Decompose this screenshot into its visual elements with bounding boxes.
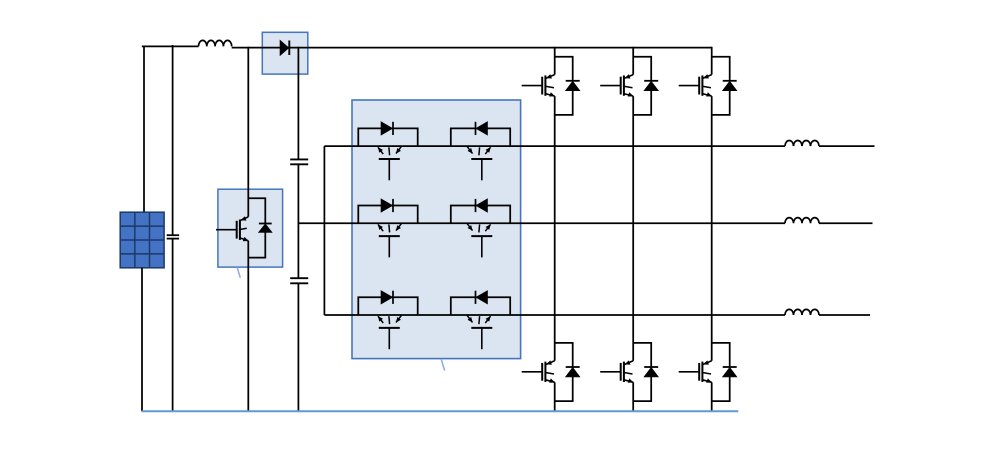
IGBT Q1 (boost switch)	[216, 217, 248, 241]
wire boost switch emitter to bottom bus	[247, 241, 249, 411]
diode D6 (S4 parallel diode)	[451, 199, 510, 223]
diode D9 (S7 anti-parallel)	[555, 57, 580, 115]
IGBT S4 (matrix switch)	[467, 224, 492, 258]
wire PV negative (panel down to bottom bus)	[141, 268, 143, 412]
IGBT S1 (matrix switch)	[378, 147, 401, 181]
inductor L3 (phase B filter)	[785, 218, 819, 224]
diode D12 (S10 anti-parallel)	[633, 343, 658, 401]
wire phase A line	[324, 145, 874, 147]
diode D3 (S1 parallel diode)	[358, 122, 417, 146]
wire DC link bottom	[297, 283, 299, 411]
solar PV panel	[120, 212, 164, 268]
diode D11 (S9 anti-parallel)	[633, 57, 658, 115]
callout tail of boost switch box	[237, 267, 240, 277]
diode D4 (S2 parallel diode)	[451, 122, 510, 146]
wire inverter leg 1	[554, 47, 556, 412]
diode D5 (S3 parallel diode)	[358, 199, 417, 223]
capacitor C3 (DC link lower)	[290, 278, 308, 283]
IGBT S5 (matrix switch)	[378, 316, 401, 350]
inductor L4 (phase C filter)	[785, 309, 819, 315]
diode D8 (S6 parallel diode)	[451, 291, 510, 315]
diode D2 (boost switch anti-parallel diode)	[248, 198, 272, 257]
diode D10 (S8 anti-parallel)	[555, 343, 580, 401]
wire PV positive (top bus corner down to panel)	[143, 46, 145, 213]
wire DC link middle	[297, 164, 299, 278]
callout tail of switch matrix box	[441, 359, 444, 371]
wire phase C line	[324, 314, 870, 316]
diode D14 (S12 anti-parallel)	[712, 343, 737, 401]
wire phase input bus vertical	[323, 146, 325, 315]
IGBT S8 (leg 1 lower)	[522, 361, 555, 383]
IGBT S6 (matrix switch)	[467, 316, 492, 350]
IGBT S11 (leg 3 upper)	[679, 75, 712, 97]
diode D13 (S11 anti-parallel)	[712, 57, 737, 115]
capacitor C2 (DC link upper)	[290, 159, 308, 164]
wire input cap bottom	[172, 239, 174, 412]
inductor L1 (boost inductor)	[199, 40, 232, 46]
wire DC link top	[297, 47, 299, 160]
IGBT S12 (leg 3 lower)	[679, 361, 712, 383]
IGBT S9 (leg 2 upper)	[600, 75, 633, 97]
IGBT S7 (leg 1 upper)	[522, 75, 555, 97]
boost switch module box (callout)	[218, 189, 283, 267]
wire bottom bus (DC negative)	[142, 410, 739, 412]
diode D1 (boost diode)	[280, 40, 289, 55]
IGBT S2 (matrix switch)	[467, 147, 492, 181]
inductor L2 (phase A filter)	[785, 141, 819, 147]
capacitor C1 (input capacitor)	[167, 235, 179, 238]
IGBT S10 (leg 2 lower)	[600, 361, 633, 383]
wire boost switch collector	[247, 47, 249, 217]
wire DC midpoint to phase bus	[298, 222, 324, 224]
bidirectional switch matrix box (callout)	[352, 100, 521, 359]
diode D7 (S5 parallel diode)	[358, 291, 417, 315]
wire phase B line	[324, 222, 872, 224]
wire inverter leg 2	[632, 47, 634, 412]
IGBT S3 (matrix switch)	[378, 224, 401, 258]
boost diode module box (callout)	[262, 32, 308, 74]
wire top bus right segment	[232, 47, 712, 49]
wire inverter leg 3	[711, 47, 713, 412]
wire top bus left segment	[142, 45, 199, 47]
wire input cap top	[172, 45, 174, 235]
